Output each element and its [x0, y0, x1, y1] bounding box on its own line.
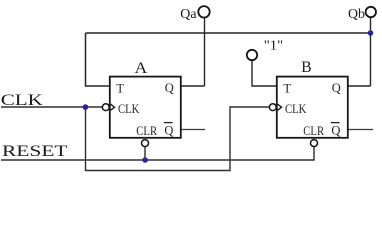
svg-text:Q: Q — [165, 81, 174, 95]
svg-text:Q: Q — [331, 123, 340, 137]
svg-text:Qb: Qb — [348, 7, 365, 22]
terminal "1" — [247, 50, 257, 60]
svg-text:T: T — [283, 81, 291, 95]
wire Q output of B to Qb vertical — [348, 85, 371, 87]
flip-flop A box — [110, 77, 181, 138]
svg-text:CLR: CLR — [303, 124, 324, 138]
CLR bubble B — [311, 140, 318, 147]
junction top-wire/Qb — [368, 30, 374, 36]
wire CLK input line — [1, 106, 102, 108]
flip-flop B box — [277, 77, 348, 138]
svg-text:Qa: Qa — [180, 7, 197, 22]
wire Qbar stub of B — [348, 129, 373, 131]
junction RESET/CLR-A — [142, 157, 148, 163]
svg-text:CLK: CLK — [285, 101, 307, 116]
CLK bubble A — [102, 104, 109, 111]
svg-text:Q: Q — [332, 81, 341, 95]
wire RESET line — [1, 147, 314, 160]
wire Qb terminal vertical — [370, 18, 372, 86]
wire CLK branch down and across to B — [86, 107, 270, 171]
CLR bubble A — [142, 140, 149, 147]
svg-text:CLR: CLR — [136, 124, 157, 138]
svg-text:A: A — [135, 60, 148, 77]
wire feedback vertical to T of A — [86, 33, 110, 86]
terminal Qb — [366, 7, 376, 17]
svg-text:B: B — [301, 59, 311, 76]
wire "1" terminal to T of B — [252, 60, 277, 86]
wire top feedback bus — [86, 32, 371, 34]
wire CLR of A down to RESET — [144, 147, 146, 160]
svg-text:T: T — [116, 81, 124, 95]
terminal Qa — [198, 6, 209, 17]
wire Q output of A to Qa vertical — [181, 85, 205, 87]
svg-text:CLK: CLK — [1, 92, 44, 109]
CLK bubble B — [269, 104, 276, 111]
CLK triangle A — [111, 104, 115, 110]
wire Qbar stub of A — [181, 129, 205, 131]
svg-text:RESET: RESET — [2, 143, 68, 160]
svg-text:CLK: CLK — [118, 101, 140, 116]
junction CLK/branch — [83, 104, 89, 110]
svg-text:Q: Q — [164, 123, 173, 137]
wire Qa terminal vertical — [204, 18, 206, 86]
svg-text:"1": "1" — [264, 39, 283, 54]
CLK triangle B — [278, 104, 282, 110]
